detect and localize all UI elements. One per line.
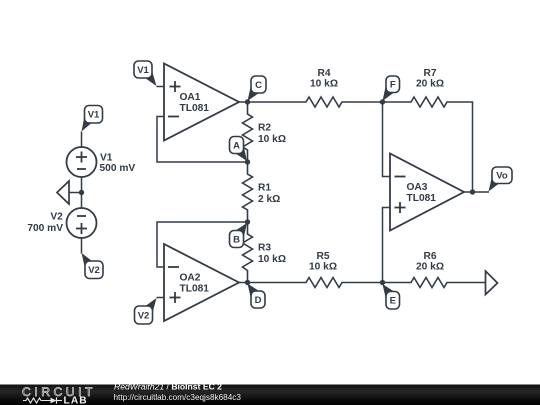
svg-text:D: D <box>255 295 262 306</box>
wire: R5 to node E <box>354 282 383 284</box>
svg-text:OA2: OA2 <box>180 273 201 284</box>
flag Vo output <box>489 177 500 192</box>
svg-text:Vo: Vo <box>496 171 508 182</box>
svg-text:10 kΩ: 10 kΩ <box>258 254 286 265</box>
svg-text:R7: R7 <box>423 68 436 79</box>
op-amp OA1 TL081 <box>164 64 239 141</box>
node: ground junction dot <box>79 190 84 195</box>
resistor R7 20 k <box>399 97 459 107</box>
ground symbol (right) <box>486 271 498 295</box>
svg-text:TL081: TL081 <box>180 284 210 295</box>
resistor R2 10 k (C to A) <box>243 102 253 162</box>
wire: OA2 + input stub <box>157 297 165 299</box>
svg-text:A: A <box>233 140 240 151</box>
wire: OA2 output stub <box>239 282 248 284</box>
footer bar <box>0 385 540 405</box>
resistor R6 20 k <box>399 278 459 288</box>
resistor R1 2 k (A to B) <box>243 162 253 222</box>
svg-text:http://circuitlab.com/c3eqjs8k: http://circuitlab.com/c3eqjs8k684c3 <box>114 393 242 402</box>
wire: node C to R4 <box>248 101 295 103</box>
svg-text:V1: V1 <box>100 153 113 164</box>
node C <box>245 99 250 104</box>
svg-text:500 mV: 500 mV <box>100 163 136 174</box>
svg-text:OA3: OA3 <box>407 182 428 193</box>
svg-text:2 kΩ: 2 kΩ <box>258 194 280 205</box>
wire: stub to ground <box>69 192 82 194</box>
svg-text:R3: R3 <box>258 243 271 254</box>
wire: node E up to OA3 + input <box>383 208 391 283</box>
wire: OA2 feedback from node B to - input <box>157 222 248 267</box>
resistor R4 10 k <box>294 97 354 107</box>
svg-text:R2: R2 <box>258 123 271 134</box>
node E <box>380 280 385 285</box>
svg-text:F: F <box>390 80 396 91</box>
wire: node F to R7 <box>383 101 400 103</box>
wire: node E to R6 <box>383 282 400 284</box>
ground symbol (left) <box>57 181 69 204</box>
svg-text:R1: R1 <box>258 183 271 194</box>
svg-text:TL081: TL081 <box>180 103 210 114</box>
node F <box>380 99 385 104</box>
wire: OA3 output stub <box>464 191 473 193</box>
wire: V1 bottom to V2 top through ground junction <box>81 177 83 208</box>
node D <box>245 280 250 285</box>
flag node C <box>248 85 260 101</box>
flag node F <box>383 85 395 102</box>
svg-text:E: E <box>390 296 396 307</box>
op-amp OA3 TL081 <box>390 154 464 231</box>
flag node B <box>236 223 248 239</box>
svg-text:OA1: OA1 <box>180 92 201 103</box>
wire: OA1 + input stub <box>157 86 165 88</box>
wire: OA1 feedback from node A to - input <box>157 117 248 163</box>
voltage source V1 500 mV <box>67 147 97 177</box>
node Vo junction <box>470 189 475 194</box>
svg-text:V1: V1 <box>137 65 149 76</box>
svg-text:TL081: TL081 <box>407 193 437 204</box>
CircuitLab logo resistor-diode glyph <box>23 398 51 403</box>
svg-text:20 kΩ: 20 kΩ <box>416 79 444 90</box>
svg-text:V2: V2 <box>88 265 100 276</box>
svg-text:V2: V2 <box>50 212 63 223</box>
svg-text:20 kΩ: 20 kΩ <box>416 262 444 273</box>
svg-text:V2: V2 <box>138 310 150 321</box>
svg-text:R4: R4 <box>317 68 330 79</box>
wire: output node to Vo flag <box>473 191 490 193</box>
op-amp OA2 TL081 <box>164 244 239 321</box>
flag node E <box>383 284 395 300</box>
svg-text:10 kΩ: 10 kΩ <box>258 134 286 145</box>
wire: R6 to ground <box>459 282 486 284</box>
svg-text:LAB: LAB <box>64 396 88 405</box>
flag V1 (source top) <box>82 116 92 132</box>
flag V1 (OA1 input) <box>145 71 157 86</box>
svg-text:700 mV: 700 mV <box>27 223 63 234</box>
voltage source V2 700 mV <box>67 208 97 238</box>
wire: OA1 output stub <box>239 101 248 103</box>
svg-text:B: B <box>233 234 240 245</box>
flag V2 (source bottom) <box>82 253 93 268</box>
resistor R3 10 k (B to D) <box>243 222 253 283</box>
wire: node D to R5 <box>248 282 295 284</box>
wire: node F down to OA3 - input <box>383 102 391 177</box>
wire: R4 to node F <box>354 101 383 103</box>
node B <box>245 219 250 224</box>
flag V2 (OA2 input) <box>146 298 157 313</box>
wire: V2 bottom to V2 flag <box>81 238 83 254</box>
node A <box>245 159 250 164</box>
svg-text:10 kΩ: 10 kΩ <box>309 262 337 273</box>
flag node A <box>236 146 248 162</box>
wire: R7 right, down to output node <box>459 102 473 192</box>
svg-text:C: C <box>255 80 262 91</box>
flag node D <box>248 284 260 300</box>
svg-text:RedWraith21 / BioInst EC 2: RedWraith21 / BioInst EC 2 <box>114 382 222 392</box>
wire: V1 flag to V1 source top <box>81 132 83 148</box>
resistor R5 10 k <box>294 278 354 288</box>
svg-text:10 kΩ: 10 kΩ <box>310 79 338 90</box>
svg-text:R6: R6 <box>423 251 436 262</box>
svg-text:V1: V1 <box>88 110 100 121</box>
svg-text:R5: R5 <box>316 251 329 262</box>
